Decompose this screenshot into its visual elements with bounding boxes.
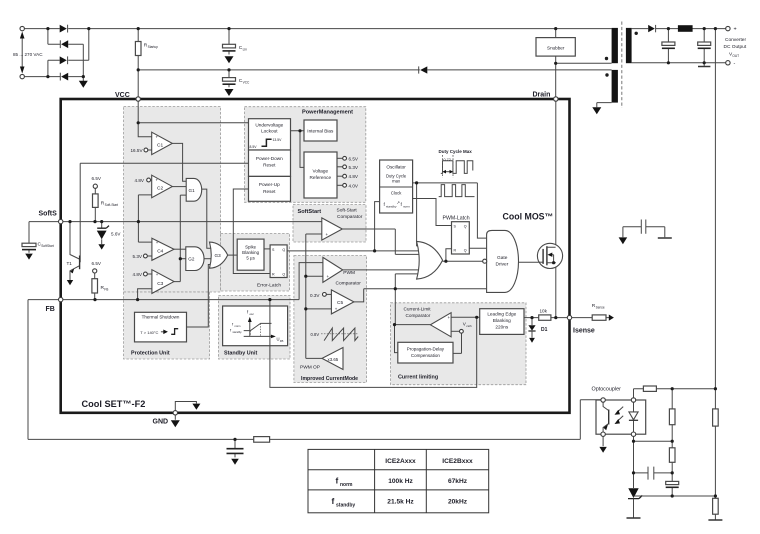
svg-text:16.5V: 16.5V	[131, 148, 144, 153]
svg-text:Optocoupler: Optocoupler	[592, 387, 622, 393]
svg-text:Blanking: Blanking	[242, 250, 259, 255]
svg-text:C3: C3	[157, 281, 163, 287]
svg-text:PWM: PWM	[343, 270, 355, 276]
svg-text:Leading Edge: Leading Edge	[487, 312, 516, 317]
svg-text:Q: Q	[282, 248, 285, 252]
svg-text:5.3V: 5.3V	[133, 254, 143, 259]
svg-text:csth: csth	[466, 324, 472, 328]
svg-text:13.5V: 13.5V	[273, 138, 283, 142]
svg-text:Q: Q	[282, 273, 285, 277]
svg-text:PWM OP: PWM OP	[300, 365, 320, 371]
svg-text:Power-Down: Power-Down	[256, 156, 283, 161]
svg-text:norm: norm	[340, 482, 353, 488]
svg-text:4.0V: 4.0V	[349, 183, 359, 188]
svg-text:5.3V: 5.3V	[349, 165, 359, 170]
svg-text:Lin: Lin	[243, 48, 247, 52]
svg-text:20kHz: 20kHz	[448, 499, 468, 506]
svg-text:Duty Cycle Max: Duty Cycle Max	[439, 149, 473, 154]
svg-text:PowerManagement: PowerManagement	[302, 110, 353, 116]
svg-text:Q: Q	[464, 249, 467, 253]
svg-text:100k Hz: 100k Hz	[388, 478, 413, 485]
svg-text:Improved CurrentMode: Improved CurrentMode	[301, 376, 358, 382]
svg-text:C1: C1	[157, 143, 163, 149]
svg-text:Lockout: Lockout	[261, 129, 278, 134]
svg-text:+: +	[448, 315, 451, 320]
svg-text:Oscillator: Oscillator	[386, 165, 406, 170]
svg-text:x3.65: x3.65	[328, 357, 339, 362]
svg-text:-: -	[734, 61, 736, 67]
svg-text:FB: FB	[104, 288, 108, 292]
svg-text:VCC: VCC	[115, 92, 130, 99]
svg-text:Converter: Converter	[725, 37, 746, 43]
svg-text:C4: C4	[157, 249, 163, 255]
svg-text:0.3V: 0.3V	[310, 293, 320, 298]
svg-text:Gate: Gate	[497, 255, 508, 261]
svg-text:Thermal Shutdown: Thermal Shutdown	[142, 315, 180, 320]
svg-text:Q: Q	[464, 225, 467, 229]
svg-text:Voltage: Voltage	[312, 169, 328, 174]
svg-text:Isense: Isense	[573, 328, 595, 335]
svg-text:Internal Bias: Internal Bias	[307, 128, 334, 133]
svg-text:OUT: OUT	[732, 54, 739, 58]
svg-text:+: +	[156, 135, 159, 140]
svg-text:Soft-Start: Soft-Start	[105, 203, 119, 207]
svg-text:standby: standby	[233, 330, 243, 334]
svg-text:PWM-Latch: PWM-Latch	[443, 216, 470, 222]
svg-text:Startup: Startup	[148, 45, 159, 49]
svg-text:Sense: Sense	[596, 305, 605, 309]
svg-text:osc: osc	[250, 312, 255, 316]
svg-text:4.8V: 4.8V	[135, 178, 145, 183]
svg-text:DC Output: DC Output	[724, 44, 747, 50]
svg-text:Propagation-Delay: Propagation-Delay	[407, 347, 445, 352]
svg-text:Reset: Reset	[263, 162, 276, 167]
svg-text:Cool MOS™: Cool MOS™	[503, 212, 554, 222]
svg-text:Compensation: Compensation	[411, 353, 441, 358]
svg-text:6.5V: 6.5V	[349, 156, 359, 161]
svg-text:R: R	[454, 249, 457, 253]
svg-text:+: +	[156, 272, 159, 277]
svg-text:+: +	[335, 307, 338, 312]
svg-text:C5: C5	[337, 300, 343, 306]
svg-text:Comparator: Comparator	[336, 281, 362, 287]
svg-text:6.5V: 6.5V	[92, 261, 102, 266]
svg-text:FB: FB	[280, 339, 284, 343]
svg-text:Cool SET™-F2: Cool SET™-F2	[82, 399, 146, 409]
svg-text:SoftS: SoftS	[39, 211, 58, 218]
svg-text:R: R	[272, 273, 275, 277]
svg-text:Undervoltage: Undervoltage	[255, 123, 283, 128]
svg-text:4.8V: 4.8V	[349, 174, 359, 179]
svg-text:Reference: Reference	[309, 175, 331, 180]
svg-text:Blanking: Blanking	[493, 318, 511, 323]
svg-text:Protection Unit: Protection Unit	[131, 351, 170, 357]
svg-text:standby: standby	[386, 205, 397, 209]
svg-text:+: +	[326, 232, 329, 237]
svg-text:max: max	[392, 179, 401, 184]
svg-text:Error-Latch: Error-Latch	[257, 282, 281, 288]
svg-text:Snubber: Snubber	[547, 46, 565, 51]
svg-text:SoftStart: SoftStart	[41, 244, 54, 248]
svg-text:+: +	[156, 240, 159, 245]
svg-text:norm: norm	[403, 205, 410, 209]
svg-text:10k: 10k	[540, 309, 548, 314]
svg-text:VCC: VCC	[243, 81, 250, 85]
svg-text:standby: standby	[336, 502, 355, 508]
svg-text:0.8V: 0.8V	[311, 332, 320, 337]
svg-text:8.5V: 8.5V	[250, 145, 258, 149]
svg-text:85 ... 270 VAC: 85 ... 270 VAC	[13, 52, 43, 57]
svg-text:f: f	[336, 476, 339, 486]
svg-text:D1: D1	[541, 327, 548, 333]
svg-text:Reset: Reset	[263, 189, 276, 194]
svg-text:G1: G1	[189, 188, 196, 193]
svg-text:5.6V: 5.6V	[111, 232, 121, 237]
svg-text:Comparator: Comparator	[337, 214, 363, 220]
svg-text:Clock: Clock	[391, 191, 402, 196]
svg-text:f: f	[332, 496, 335, 506]
svg-text:+: +	[156, 178, 159, 183]
svg-text:+: +	[734, 27, 737, 33]
svg-text:+: +	[327, 274, 330, 279]
svg-text:4.8V: 4.8V	[133, 272, 143, 277]
svg-text:ICE2Bxxx: ICE2Bxxx	[442, 458, 473, 465]
svg-text:G3: G3	[215, 253, 222, 258]
svg-text:Comparator: Comparator	[406, 313, 431, 318]
svg-text:Soft-Start: Soft-Start	[337, 208, 358, 214]
svg-text:Spike: Spike	[245, 245, 257, 250]
svg-text:21.5k Hz: 21.5k Hz	[387, 499, 414, 506]
svg-text:Driver: Driver	[496, 261, 509, 267]
svg-text:Power-Up: Power-Up	[259, 182, 280, 187]
svg-text:Drain: Drain	[533, 92, 551, 99]
svg-text:Current-Limit: Current-Limit	[404, 307, 432, 312]
svg-text:220ns: 220ns	[495, 325, 508, 330]
svg-text:GND: GND	[153, 419, 169, 426]
svg-text:Standby Unit: Standby Unit	[224, 351, 257, 357]
svg-text:T > 140°C: T > 140°C	[140, 330, 158, 335]
svg-text:6.5V: 6.5V	[92, 176, 102, 181]
svg-text:C2: C2	[157, 186, 163, 192]
svg-text:67kHz: 67kHz	[448, 478, 468, 485]
svg-text:↗: ↗	[397, 200, 400, 205]
svg-text:FB: FB	[46, 306, 55, 313]
svg-text:ICE2Axxx: ICE2Axxx	[385, 458, 416, 465]
svg-text:norm: norm	[235, 324, 241, 328]
svg-text:Current limiting: Current limiting	[398, 374, 438, 380]
svg-text:5 µs: 5 µs	[246, 256, 255, 261]
svg-text:SoftStart: SoftStart	[298, 209, 322, 215]
svg-text:G2: G2	[188, 257, 195, 262]
svg-text:T1: T1	[67, 261, 73, 266]
svg-text:0.72: 0.72	[444, 158, 451, 162]
